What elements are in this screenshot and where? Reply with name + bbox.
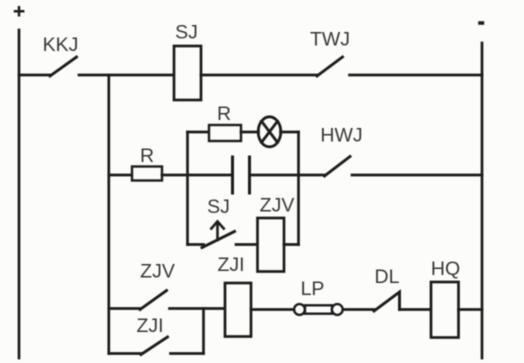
svg-text:R: R: [140, 145, 154, 167]
svg-text:SJ: SJ: [175, 22, 198, 44]
svg-text:HQ: HQ: [431, 258, 460, 280]
svg-text:ZJV: ZJV: [140, 261, 175, 283]
svg-text:ZJI: ZJI: [217, 254, 244, 276]
svg-text:HWJ: HWJ: [320, 125, 362, 147]
svg-text:KKJ: KKJ: [43, 34, 79, 56]
svg-text:R: R: [217, 103, 231, 125]
svg-text:ZJI: ZJI: [136, 315, 163, 337]
svg-text:LP: LP: [301, 278, 325, 300]
svg-text:DL: DL: [375, 266, 400, 288]
svg-text:TWJ: TWJ: [310, 29, 350, 51]
svg-text:ZJV: ZJV: [260, 195, 295, 217]
svg-text:SJ: SJ: [207, 196, 230, 218]
